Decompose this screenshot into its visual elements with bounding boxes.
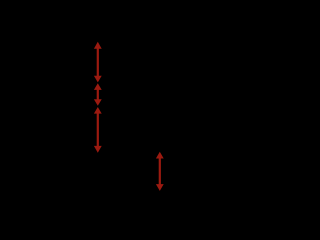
double arrow A (left column, top span) [94,42,102,83]
double arrow C (left column, bottom span) [94,107,102,153]
double arrow B (left column, middle short span) [94,83,102,106]
double arrow D (right column) [156,152,164,191]
